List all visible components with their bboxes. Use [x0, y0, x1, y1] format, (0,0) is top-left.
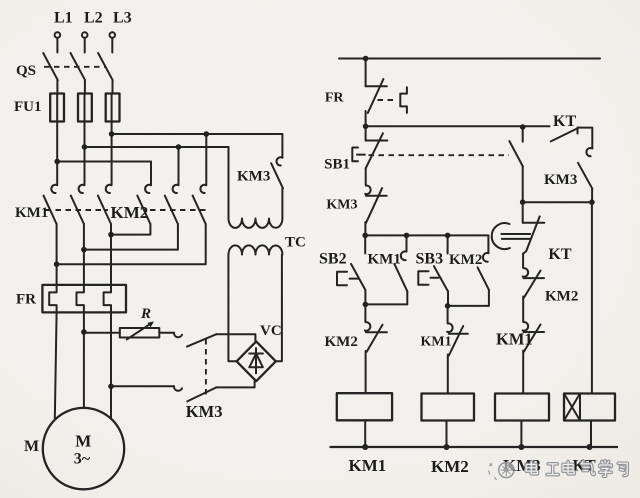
svg-text:KM3: KM3	[237, 169, 270, 185]
svg-text:SB1: SB1	[324, 157, 350, 173]
svg-text:FR: FR	[325, 91, 345, 106]
svg-text:KM3: KM3	[544, 172, 577, 188]
svg-text:L1: L1	[54, 10, 73, 27]
svg-text:KM1: KM1	[421, 335, 452, 350]
svg-text:KM1: KM1	[368, 252, 401, 268]
svg-text:KM2: KM2	[431, 457, 469, 476]
svg-text:KM1: KM1	[15, 205, 48, 221]
svg-text:M: M	[24, 438, 39, 455]
svg-text:L3: L3	[113, 10, 132, 27]
svg-text:QS: QS	[16, 63, 36, 79]
svg-text:KM3: KM3	[186, 402, 223, 421]
svg-text:FU1: FU1	[14, 99, 42, 115]
svg-text:KM2: KM2	[325, 334, 358, 350]
svg-text:KM2: KM2	[111, 203, 149, 222]
svg-text:FR: FR	[16, 292, 36, 308]
svg-text:SB2: SB2	[319, 251, 347, 268]
svg-text:KM3: KM3	[326, 198, 357, 213]
svg-text:KM2: KM2	[545, 289, 578, 305]
svg-text:R: R	[140, 306, 151, 322]
svg-text:TC: TC	[285, 235, 306, 251]
svg-text:KT: KT	[553, 113, 576, 130]
svg-text:KM1: KM1	[349, 456, 387, 475]
svg-text:KT: KT	[548, 246, 571, 263]
svg-text:SB3: SB3	[416, 251, 444, 268]
svg-text:KM1: KM1	[496, 330, 533, 349]
svg-text:L2: L2	[84, 10, 103, 27]
svg-text:M: M	[75, 431, 91, 450]
svg-text:KM2: KM2	[449, 252, 482, 268]
svg-text:3~: 3~	[74, 451, 91, 468]
svg-text:VC: VC	[260, 323, 282, 339]
